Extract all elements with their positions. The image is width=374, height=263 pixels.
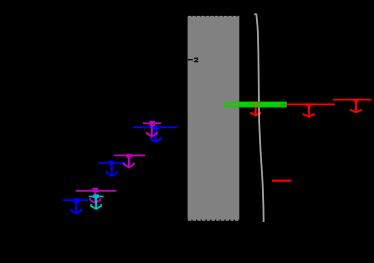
gray exclusion band fill [188, 17, 240, 220]
green band over gray region: dull fill + bright edge [225, 103, 239, 107]
blue limit point B2 [99, 162, 126, 176]
olive triangle: red marker of R0 seen through band [251, 103, 261, 107]
magenta limit point M3 [143, 122, 161, 137]
red limit point R1 [281, 103, 335, 117]
blue limit point B3 [133, 127, 178, 142]
tick at -2 on gray band edge [188, 59, 193, 61]
green measurement band (solid part over black) [239, 102, 287, 108]
gray theory curve [254, 14, 263, 222]
red limit point R0 (behind green band) [230, 105, 281, 116]
olive segment: red bar of R1 seen through band right end [280, 104, 287, 105]
tick label -2 [194, 58, 198, 63]
magenta limit point M2 [114, 155, 145, 168]
cyan limit point C1 [89, 195, 104, 209]
hatch comb on bottom edge of gray band [188, 219, 239, 221]
red legend line [272, 180, 291, 182]
blue limit point B1 [63, 199, 88, 214]
hatch comb on top edge of gray band [188, 16, 239, 18]
magenta limit point M1 [76, 188, 116, 203]
red limit point R2 [333, 99, 371, 113]
